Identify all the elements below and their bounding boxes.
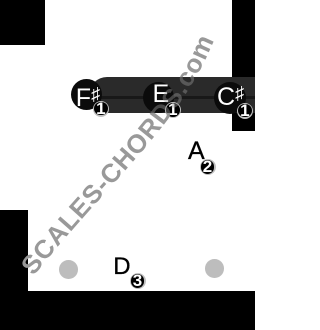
disc F# bbox=[71, 79, 102, 110]
watermark SCALES-CHORDS.com bbox=[0, 0, 255, 330]
svg-text:SCALES-CHORDS.com: SCALES-CHORDS.com bbox=[15, 30, 220, 280]
blob bottom band bbox=[0, 291, 255, 330]
disc C# bbox=[214, 82, 246, 114]
badge 1 under F# bbox=[93, 101, 109, 117]
blob bottom-left column bbox=[0, 210, 28, 330]
label D bbox=[113, 258, 130, 276]
string line bbox=[100, 96, 255, 99]
barre band bbox=[89, 77, 255, 113]
disc E bbox=[143, 82, 174, 113]
blob right column bbox=[232, 0, 255, 131]
label A bbox=[188, 142, 205, 160]
badge 2 under A bbox=[200, 159, 216, 175]
label F# bbox=[76, 85, 110, 104]
gray dot right bbox=[205, 259, 224, 278]
label C# bbox=[217, 84, 251, 103]
badge 1 under E bbox=[165, 102, 181, 118]
badge 1 under C# bbox=[237, 103, 253, 119]
label E bbox=[153, 85, 173, 104]
gray dot left bbox=[59, 260, 78, 279]
blob top-left bbox=[0, 0, 45, 45]
badge 3 under D bbox=[130, 273, 146, 289]
